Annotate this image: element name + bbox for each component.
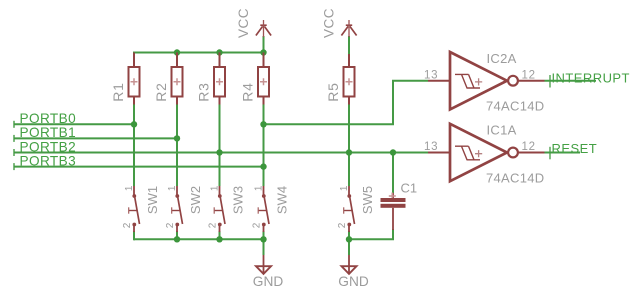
junction R4/interrupt tap (260, 121, 266, 127)
svg-text:2: 2 (337, 222, 348, 228)
junction C1/PORTB2 (390, 149, 396, 155)
svg-text:13: 13 (424, 69, 438, 81)
junction R5/PORTB2 (346, 149, 352, 155)
switch SW3 (207, 185, 245, 232)
svg-text:VCC: VCC (236, 8, 251, 38)
supply VCC1 (236, 8, 271, 38)
svg-text:R1: R1 (110, 82, 126, 102)
svg-text:13: 13 (424, 141, 438, 153)
junction PORTB2/R3 (216, 149, 222, 155)
svg-text:2: 2 (251, 222, 262, 228)
wire PORTB2 / RESET net (14, 152, 393, 154)
ground GND1 (253, 255, 284, 289)
svg-text:PORTB2: PORTB2 (20, 139, 77, 154)
wire IC1A input (393, 152, 428, 154)
svg-text:PORTB0: PORTB0 (20, 111, 77, 126)
junction PORTB3/R4 (260, 163, 266, 169)
junction SW4 bottom / GND (260, 236, 266, 242)
svg-text:IC2A: IC2A (487, 51, 517, 66)
junction bus/R3 (216, 49, 222, 55)
svg-text:1: 1 (124, 185, 135, 191)
svg-text:R2: R2 (153, 82, 169, 102)
wire bottom switch bus SW1-SW4 (134, 238, 264, 240)
svg-text:2: 2 (122, 222, 133, 228)
svg-text:GND: GND (253, 274, 284, 289)
svg-text:SW2: SW2 (188, 186, 203, 214)
node PORTB2 label (14, 139, 76, 156)
svg-text:PORTB1: PORTB1 (20, 125, 77, 140)
wire interrupt tap R4 to IC2A (264, 81, 429, 125)
svg-text:2: 2 (165, 222, 176, 228)
junction PORTB0/R1 (131, 121, 137, 127)
node PORTB3 label (14, 153, 76, 170)
switch SW5 (337, 185, 375, 232)
wire R4 column (263, 104, 265, 186)
svg-text:1: 1 (339, 185, 350, 191)
svg-text:12: 12 (522, 69, 536, 81)
junction VCC1/R4 bus (260, 49, 266, 55)
junction SW3 bottom (216, 236, 222, 242)
junction bus/R2 (174, 49, 180, 55)
inverter IC1A (424, 123, 545, 186)
resistor R1 (110, 53, 140, 105)
svg-text:1: 1 (254, 185, 265, 191)
wire PORTB1 (14, 137, 177, 139)
svg-text:C1: C1 (401, 181, 418, 196)
resistor R3 (196, 53, 226, 105)
wire SW5-C1 bottom (349, 229, 393, 239)
svg-text:1: 1 (167, 185, 178, 191)
svg-text:74AC14D: 74AC14D (486, 99, 544, 114)
junction PORTB1/R2 (174, 135, 180, 141)
wire INTERRUPT output (545, 80, 597, 82)
node INTERRUPT label (550, 70, 630, 87)
svg-text:R4: R4 (240, 82, 256, 102)
wire top VCC bus (134, 52, 264, 54)
capacitor C1 (381, 181, 418, 231)
svg-text:R5: R5 (325, 82, 341, 102)
svg-text:IC1A: IC1A (487, 123, 517, 138)
svg-text:74AC14D: 74AC14D (486, 170, 544, 185)
node PORTB1 label (14, 125, 76, 142)
node PORTB0 label (14, 111, 76, 128)
wire R2 column (176, 104, 178, 186)
junction SW5 bottom / GND (346, 236, 352, 242)
inverter IC2A (424, 51, 545, 114)
svg-text:RESET: RESET (552, 141, 598, 156)
switch SW1 (122, 185, 160, 232)
svg-text:SW3: SW3 (231, 186, 246, 214)
wire C1 top (392, 153, 394, 194)
switch SW2 (165, 185, 203, 232)
wire VCC1 stem (263, 36, 265, 53)
svg-text:PORTB3: PORTB3 (20, 153, 77, 168)
resistor R2 (153, 53, 183, 105)
svg-text:SW1: SW1 (145, 186, 160, 214)
resistor R4 (240, 53, 270, 105)
svg-text:SW5: SW5 (360, 186, 375, 214)
node RESET label (550, 141, 597, 159)
svg-text:1: 1 (210, 185, 221, 191)
wire R5 column (348, 104, 350, 186)
ground GND2 (338, 255, 369, 289)
wire R3 column (219, 104, 221, 186)
supply VCC2 (322, 8, 357, 38)
wire RESET output (545, 152, 581, 154)
svg-text:R3: R3 (196, 82, 212, 102)
svg-text:VCC: VCC (322, 8, 337, 38)
wire VCC2 stem to R5 (348, 36, 350, 55)
wire PORTB0 (14, 123, 134, 125)
junction SW2 bottom (174, 236, 180, 242)
svg-text:12: 12 (522, 141, 536, 153)
resistor R5 (325, 54, 355, 105)
switch SW4 (251, 185, 289, 232)
wire PORTB3 (14, 166, 264, 168)
wire R1 column (133, 52, 135, 55)
svg-text:SW4: SW4 (275, 186, 290, 214)
svg-text:INTERRUPT: INTERRUPT (552, 70, 630, 85)
svg-text:2: 2 (207, 222, 218, 228)
svg-text:GND: GND (338, 274, 369, 289)
